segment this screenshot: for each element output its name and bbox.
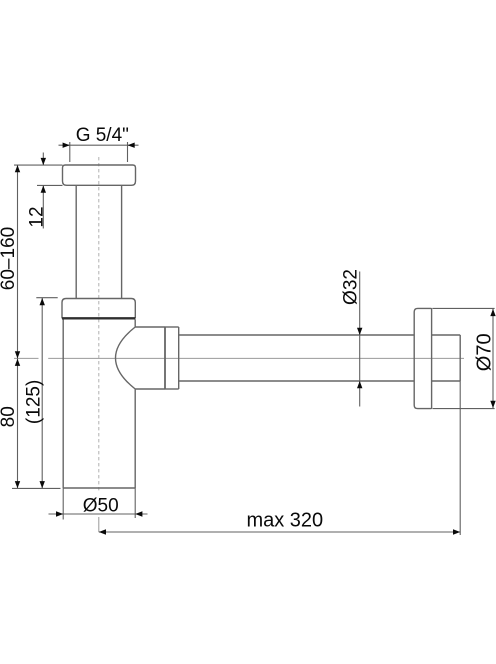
dimension: diameter 32 <box>359 272 361 407</box>
body top nut <box>62 299 135 319</box>
top flange (G5/4 nut) <box>63 165 136 185</box>
svg-text:(125): (125) <box>23 380 44 424</box>
dimension: diameter 70 <box>432 308 494 408</box>
vertical tube <box>75 185 77 298</box>
svg-text:12: 12 <box>26 206 47 227</box>
svg-text:Ø50: Ø50 <box>83 496 119 517</box>
svg-text:80: 80 <box>0 406 19 427</box>
part outlines <box>62 165 460 488</box>
dimension: max 320 <box>99 381 460 535</box>
svg-text:G 5/4": G 5/4" <box>76 125 129 146</box>
thick joint line under body nut <box>62 317 135 319</box>
outlet elbow <box>116 327 166 389</box>
body cylinder <box>62 318 64 488</box>
centerline horizontal (pipe axis) <box>14 357 464 359</box>
svg-text:Ø32: Ø32 <box>341 269 362 305</box>
dimension: 80 <box>17 358 19 488</box>
pipe end stub <box>432 334 461 336</box>
wall flange <box>414 308 431 408</box>
svg-text:max 320: max 320 <box>246 510 323 532</box>
svg-text:Ø70: Ø70 <box>474 333 496 371</box>
dimension: 12 <box>14 153 63 229</box>
centerline vertical (body axis) <box>98 157 100 532</box>
dimension: G 5/4" <box>59 142 139 162</box>
pipe nut <box>164 327 166 389</box>
horizontal pipe <box>179 334 414 336</box>
dimension: (125) <box>12 298 61 489</box>
dimension: 60-160 <box>17 165 19 358</box>
svg-text:60–160: 60–160 <box>0 227 19 290</box>
dimension: diameter 50 <box>49 488 148 520</box>
